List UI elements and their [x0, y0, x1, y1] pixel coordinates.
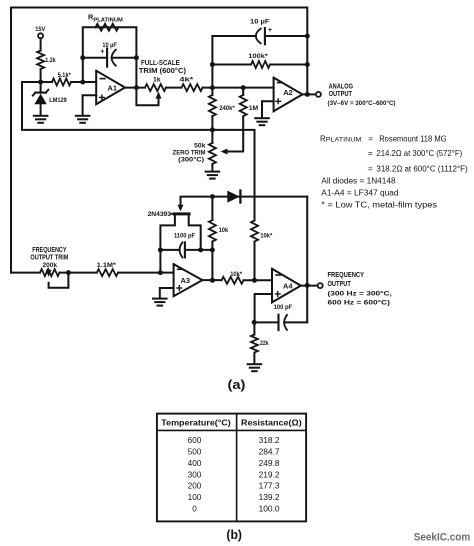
svg-text:400: 400: [188, 459, 202, 468]
svg-text:Temperature(°C): Temperature(°C): [161, 417, 231, 427]
svg-text:100k*: 100k*: [248, 53, 268, 60]
svg-text:100: 100: [188, 493, 202, 502]
svg-text:+: +: [268, 25, 272, 34]
svg-text:1k: 1k: [153, 77, 161, 84]
svg-text:OUTPUT: OUTPUT: [329, 89, 353, 98]
svg-text:240k*: 240k*: [219, 105, 235, 112]
svg-text:100.0: 100.0: [259, 505, 280, 514]
svg-text:10 µF: 10 µF: [250, 19, 270, 26]
svg-text:ZERO TRIM: ZERO TRIM: [173, 149, 206, 156]
svg-text:RPLATINUM: RPLATINUM: [320, 134, 361, 143]
svg-text:10k*: 10k*: [230, 271, 242, 278]
svg-text:=: =: [368, 134, 373, 143]
svg-text:284.7: 284.7: [259, 447, 280, 456]
svg-text:2N4393: 2N4393: [148, 211, 172, 218]
svg-text:318.2Ω at 600°C (1112°F): 318.2Ω at 600°C (1112°F): [376, 164, 468, 173]
svg-text:500: 500: [188, 447, 202, 456]
svg-text:177.3: 177.3: [259, 482, 280, 491]
svg-text:A4: A4: [283, 281, 293, 290]
svg-text:100 pF: 100 pF: [274, 304, 293, 311]
svg-text:15V: 15V: [35, 26, 45, 33]
svg-text:* = Low TC, metal-film types: * = Low TC, metal-film types: [321, 201, 437, 210]
svg-text:5.1k*: 5.1k*: [58, 72, 71, 79]
svg-text:300: 300: [188, 470, 202, 479]
svg-text:219.2: 219.2: [259, 470, 280, 479]
svg-text:OUTPUT TRIM: OUTPUT TRIM: [30, 255, 68, 262]
svg-text:1.2k: 1.2k: [45, 57, 56, 64]
svg-text:OUTPUT: OUTPUT: [328, 279, 352, 288]
svg-text:(300 Hz = 300°C,: (300 Hz = 300°C,: [328, 289, 393, 297]
svg-text:1.1M*: 1.1M*: [97, 262, 116, 269]
svg-text:214.2Ω at 300°C (572°F): 214.2Ω at 300°C (572°F): [376, 149, 462, 158]
svg-text:(300°C): (300°C): [178, 155, 204, 163]
svg-text:(a): (a): [228, 377, 246, 392]
svg-text:22k: 22k: [260, 340, 269, 347]
svg-text:(b): (b): [226, 528, 242, 542]
svg-text:1100 pF: 1100 pF: [174, 232, 195, 239]
svg-text:LM129: LM129: [49, 97, 67, 104]
svg-text:FREQUENCY: FREQUENCY: [32, 247, 67, 254]
svg-text:139.2: 139.2: [259, 493, 280, 502]
svg-text:+: +: [100, 47, 104, 56]
svg-text:All diodes = 1N4148: All diodes = 1N4148: [321, 176, 396, 185]
svg-text:FREQUENCY: FREQUENCY: [328, 270, 365, 279]
svg-text:(3V–6V = 300°C–600°C): (3V–6V = 300°C–600°C): [328, 99, 396, 107]
svg-text:Resistance(Ω): Resistance(Ω): [241, 417, 302, 427]
svg-text:A1: A1: [108, 84, 117, 93]
svg-text:600 Hz = 600°C): 600 Hz = 600°C): [328, 299, 390, 307]
svg-text:4k*: 4k*: [179, 77, 193, 84]
svg-text:1M: 1M: [249, 105, 259, 112]
svg-text:10k*: 10k*: [260, 232, 272, 239]
svg-text:A3: A3: [181, 276, 190, 285]
svg-text:0: 0: [192, 505, 197, 514]
svg-text:249.8: 249.8: [259, 459, 280, 468]
svg-text:A1-A4 = LF347 quad: A1-A4 = LF347 quad: [321, 188, 398, 197]
svg-text:10k: 10k: [219, 227, 229, 234]
svg-text:10 µF: 10 µF: [102, 42, 117, 49]
svg-text:FULL-SCALE: FULL-SCALE: [141, 60, 180, 67]
svg-text:Rosemount 118 MG: Rosemount 118 MG: [379, 134, 446, 143]
svg-text:TRIM (600°C): TRIM (600°C): [139, 67, 186, 75]
svg-text:=: =: [368, 164, 373, 173]
svg-text:600: 600: [188, 436, 202, 445]
svg-text:A2: A2: [283, 88, 292, 97]
svg-text:200k: 200k: [43, 262, 58, 269]
svg-text:=: =: [368, 149, 373, 158]
svg-text:318.2: 318.2: [259, 436, 280, 445]
svg-text:SeekIC.com: SeekIC.com: [414, 532, 471, 544]
svg-text:200: 200: [188, 482, 202, 491]
